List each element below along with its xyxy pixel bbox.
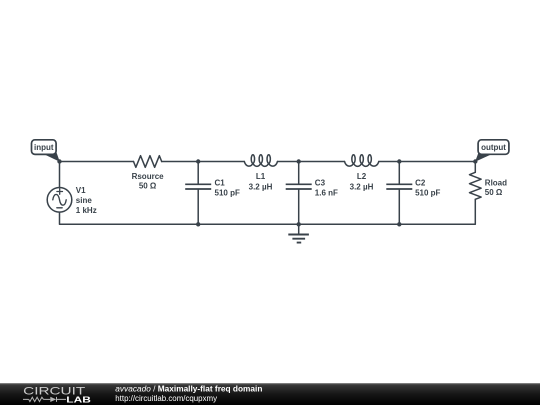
svg-text:input: input — [34, 143, 54, 152]
svg-text:3.2 µH: 3.2 µH — [249, 182, 273, 191]
svg-text:C3: C3 — [315, 179, 326, 188]
svg-text:L1: L1 — [256, 172, 266, 181]
svg-text:Rsource: Rsource — [132, 172, 165, 181]
svg-text:510 pF: 510 pF — [215, 188, 240, 197]
svg-text:Rload: Rload — [485, 178, 507, 187]
svg-text:output: output — [481, 143, 506, 152]
svg-text:1 kHz: 1 kHz — [76, 206, 97, 215]
svg-text:C1: C1 — [215, 179, 226, 188]
svg-text:3.2 µH: 3.2 µH — [350, 182, 374, 191]
svg-text:50 Ω: 50 Ω — [139, 182, 157, 191]
svg-text:50 Ω: 50 Ω — [485, 188, 503, 197]
svg-text:http://circuitlab.com/cqupxmy: http://circuitlab.com/cqupxmy — [115, 394, 217, 403]
svg-text:avvacado / Maximally-flat freq: avvacado / Maximally-flat freq domain — [115, 384, 262, 394]
svg-text:1.6 nF: 1.6 nF — [315, 188, 338, 197]
svg-text:510 pF: 510 pF — [415, 188, 440, 197]
svg-text:LAB: LAB — [66, 395, 91, 405]
svg-text:C2: C2 — [415, 179, 426, 188]
svg-text:sine: sine — [76, 196, 93, 205]
svg-text:L2: L2 — [357, 172, 367, 181]
svg-text:V1: V1 — [76, 186, 86, 195]
